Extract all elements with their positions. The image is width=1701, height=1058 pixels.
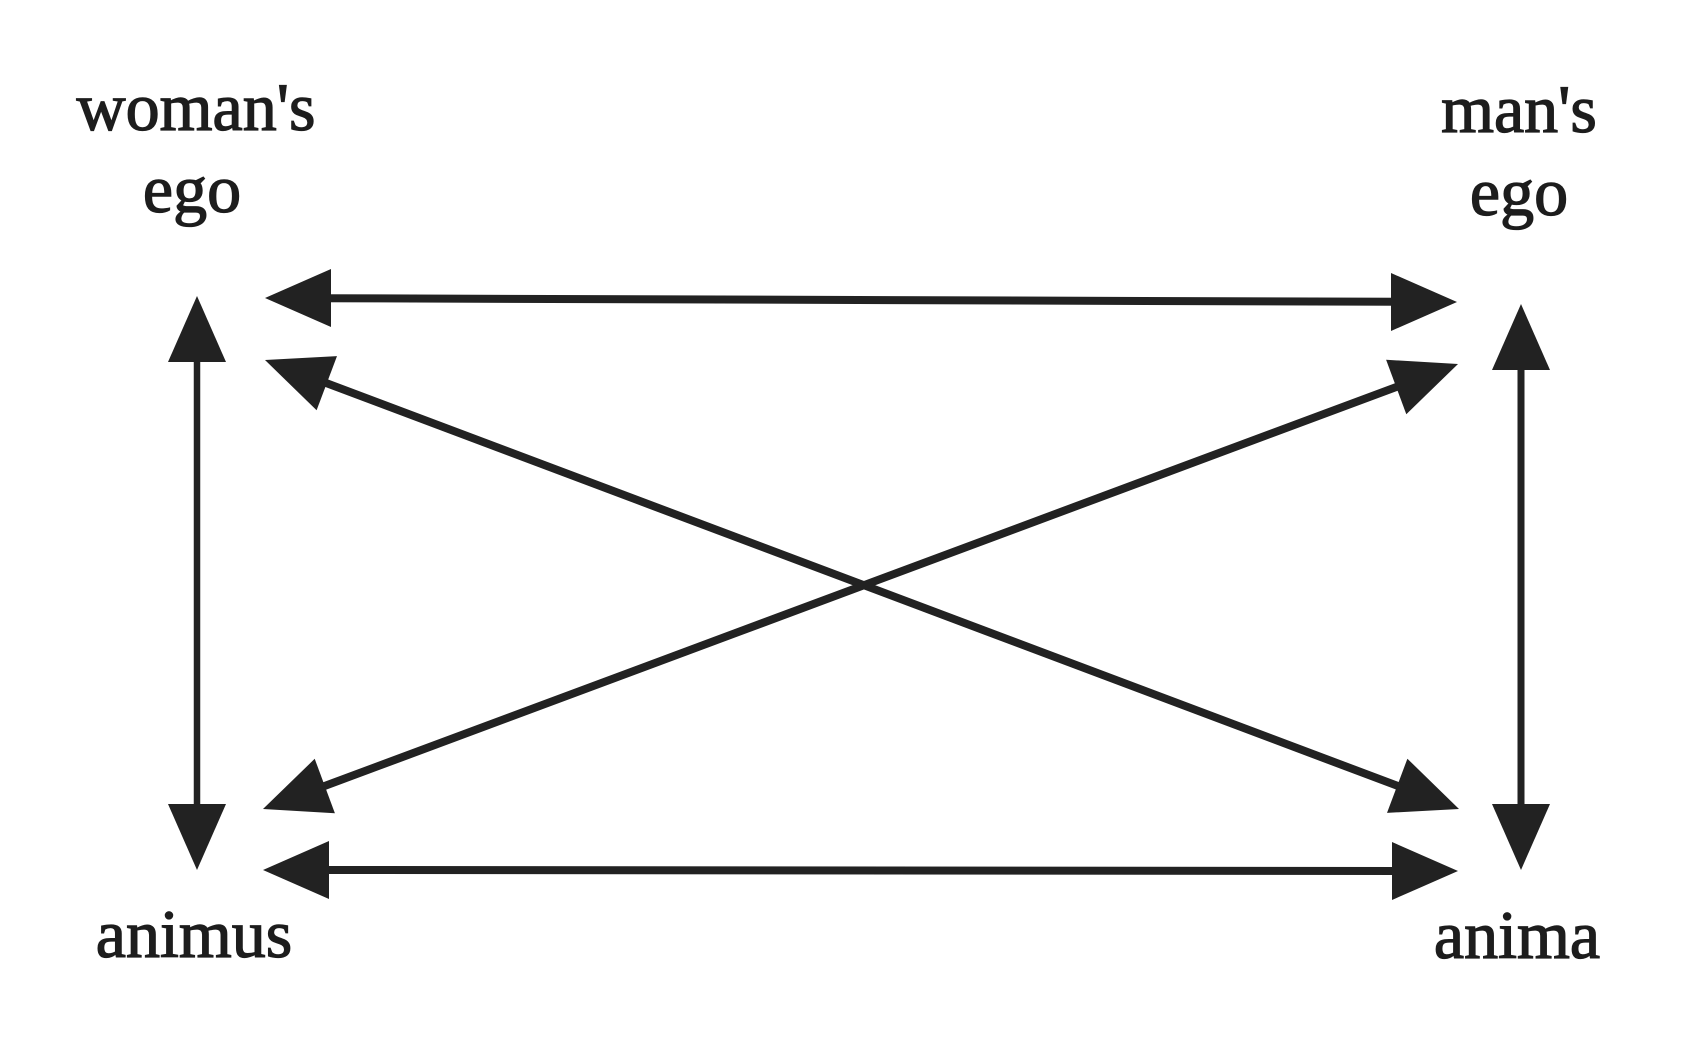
- arrowhead left: [263, 841, 329, 899]
- wire: [1518, 359, 1525, 815]
- arrowhead top: [168, 296, 226, 362]
- arrowhead upper-right: [1386, 360, 1458, 414]
- arrow: woman's ego <-> man's ego (top horizontal): [265, 269, 1457, 331]
- arrowhead lower-right: [1387, 759, 1459, 813]
- arrow: man's ego <-> anima (right vertical): [1492, 304, 1550, 870]
- svg-text:man's: man's: [1441, 71, 1597, 147]
- svg-text:animus: animus: [96, 896, 292, 972]
- wire: [317, 379, 1408, 789]
- arrow: woman's ego <-> anima (diagonal): [265, 356, 1459, 813]
- arrowhead top: [1492, 304, 1550, 370]
- wire: [318, 870, 1403, 871]
- arrowhead right: [1391, 273, 1457, 331]
- svg-text:anima: anima: [1434, 897, 1600, 973]
- svg-text:woman's: woman's: [77, 69, 316, 145]
- arrow: animus <-> anima (bottom horizontal): [263, 841, 1458, 900]
- arrow: animus <-> man's ego (diagonal): [263, 360, 1458, 813]
- arrowhead right: [1392, 842, 1458, 900]
- arrowhead upper-left: [265, 356, 337, 410]
- svg-text:ego: ego: [143, 151, 241, 227]
- arrow: woman's ego <-> animus (left vertical): [168, 296, 226, 870]
- svg-text:ego: ego: [1470, 154, 1568, 230]
- arrowhead bottom: [168, 804, 226, 870]
- arrowhead left: [265, 269, 331, 327]
- arrowhead lower-left: [263, 759, 335, 813]
- arrowhead bottom: [1492, 804, 1550, 870]
- wire: [194, 351, 201, 815]
- wire: [320, 298, 1402, 302]
- wire: [315, 383, 1407, 790]
